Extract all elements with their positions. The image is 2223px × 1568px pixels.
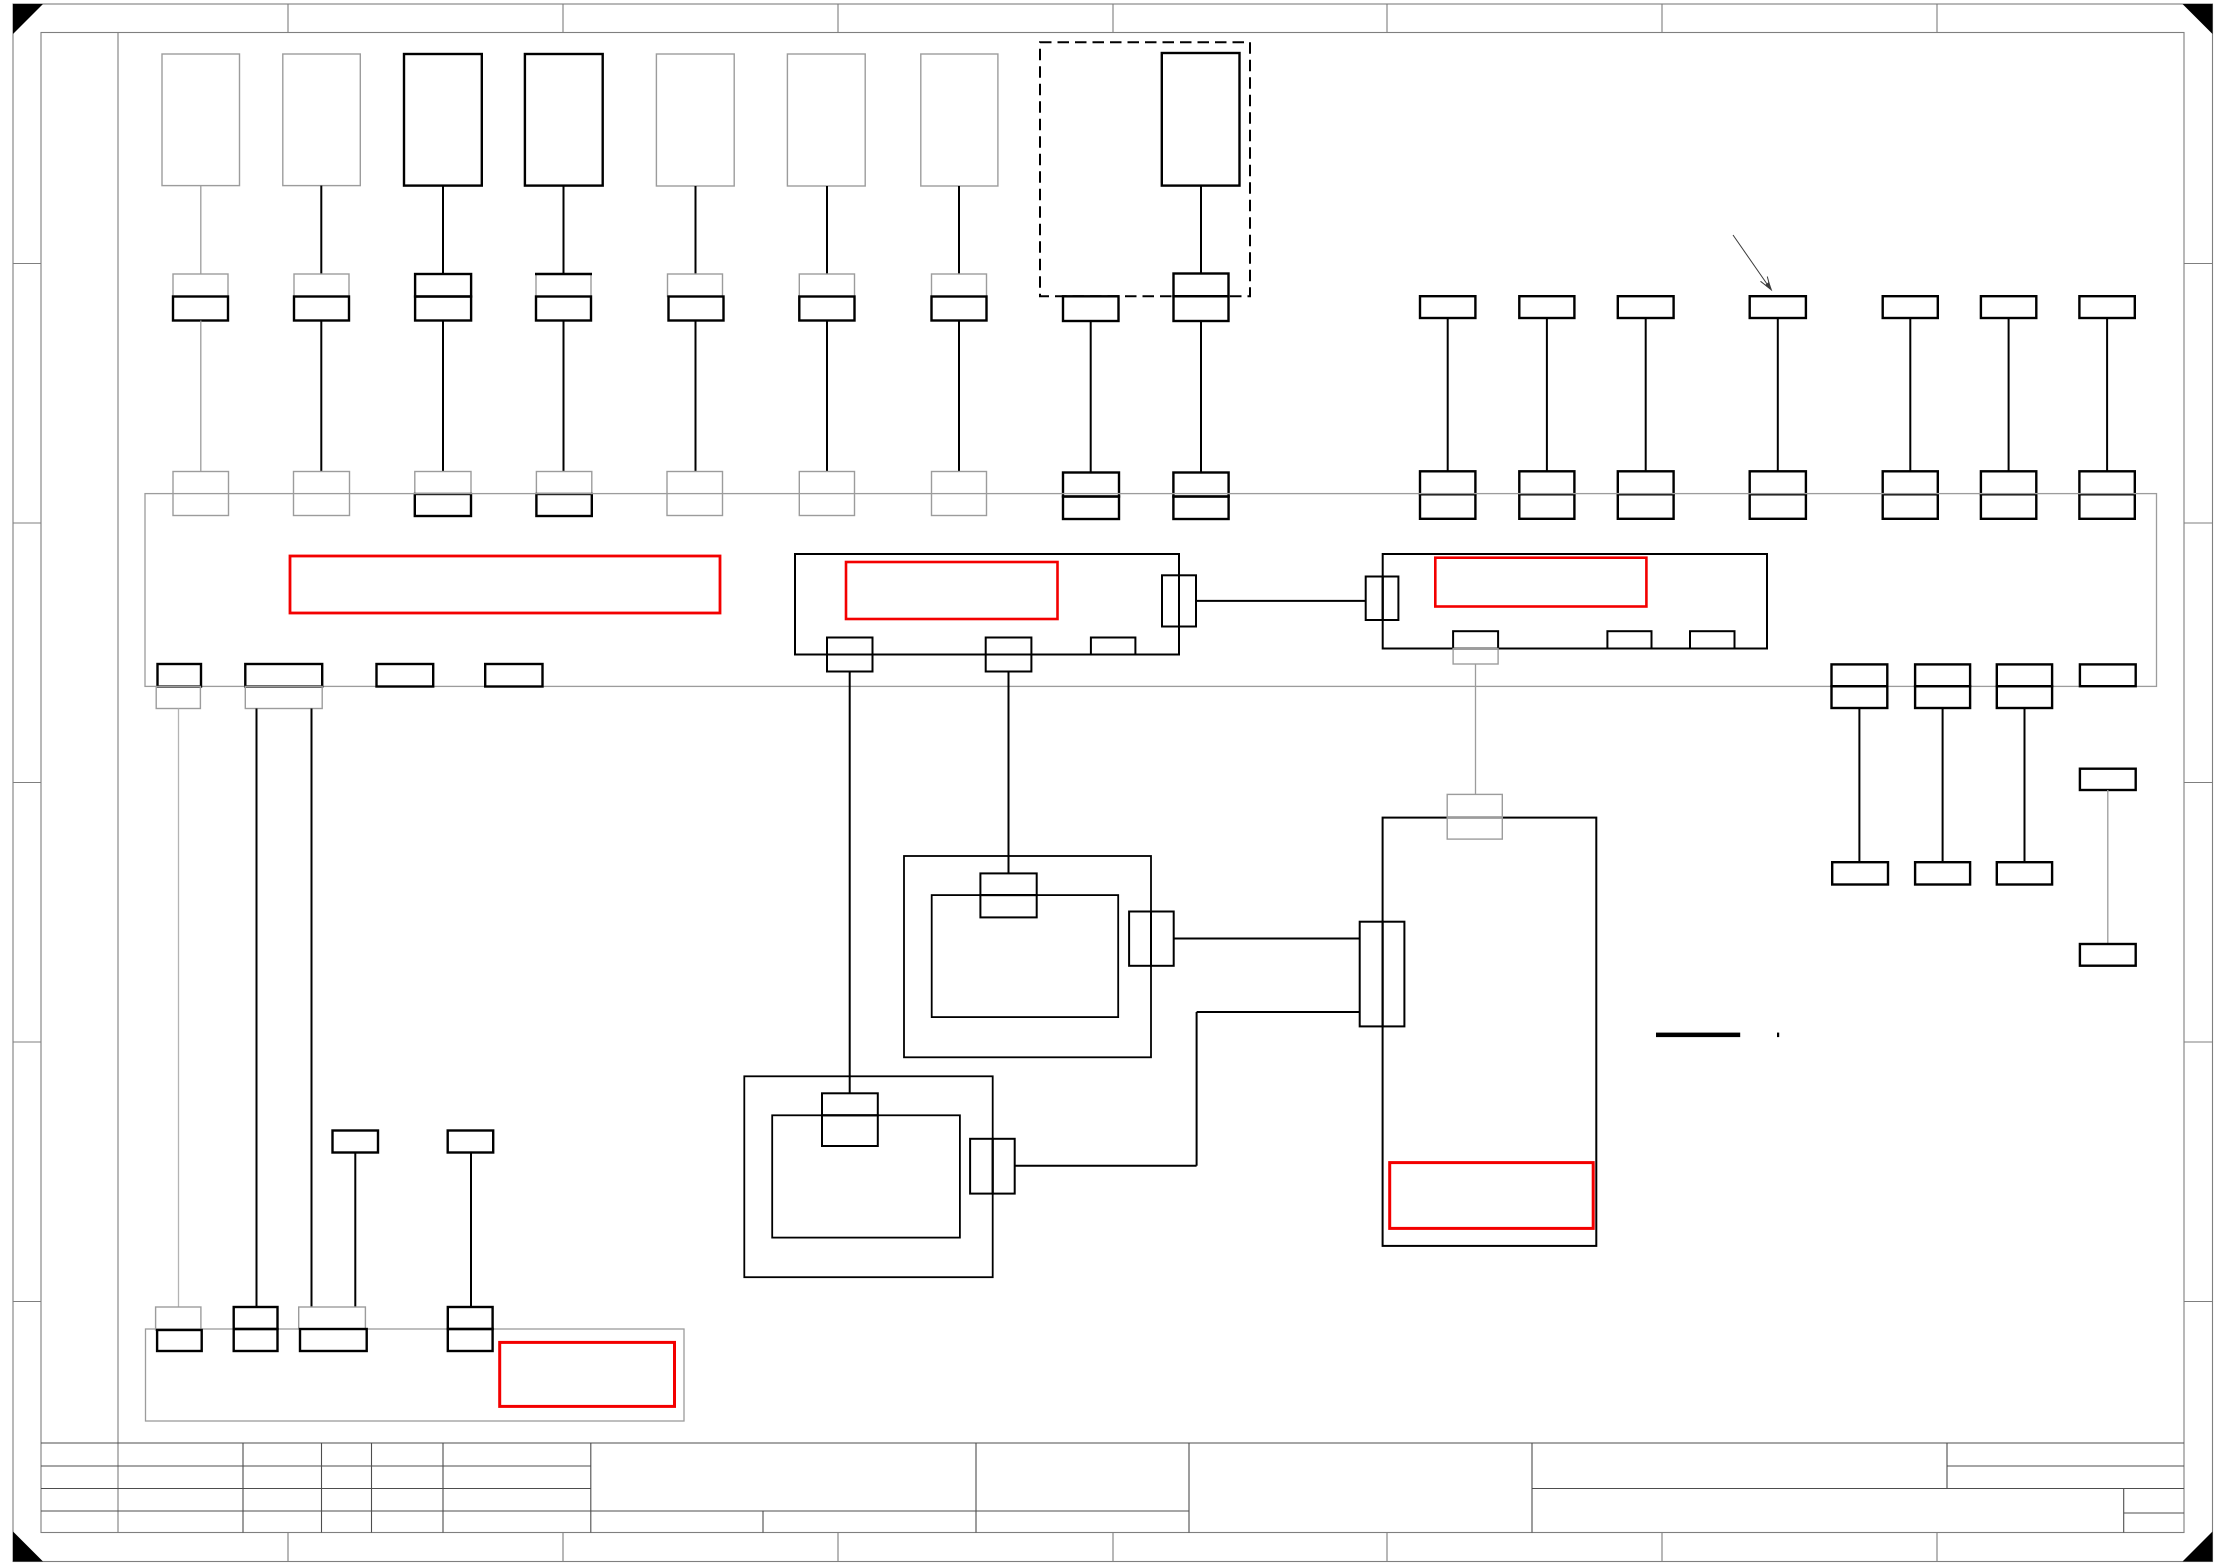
device D6: [787, 54, 865, 186]
splice S7 lower: [1997, 686, 2052, 708]
bottom zone tick: [1661, 1533, 1663, 1562]
wire M2 horizontal: [1015, 1165, 1197, 1167]
A1 pin tab P3: [1091, 638, 1136, 655]
U1 left connector outer: [1360, 922, 1383, 1027]
control unit A1: [795, 554, 1179, 655]
connector X31 upper half: [1883, 471, 1938, 494]
connector X33 upper half: [2079, 471, 2134, 494]
wire S2a down: [256, 709, 258, 1308]
bottom zone tick: [837, 1533, 839, 1562]
device D8: [1162, 53, 1240, 186]
label frame A1: [846, 562, 1058, 619]
control unit A2: [1383, 554, 1767, 649]
top zone tick: [1661, 4, 1663, 33]
connector X27 upper half: [1420, 471, 1475, 494]
connector X3 lower half: [415, 297, 471, 321]
A2 pin tab P1 sleeve: [1453, 649, 1498, 665]
connector X28 upper half: [1519, 471, 1574, 494]
connector X18 upper half: [1173, 473, 1228, 497]
A2 left connector outer: [1366, 577, 1383, 621]
wire M2 to big unit: [1197, 1011, 1360, 1013]
device D2: [283, 54, 361, 186]
connector L3 lower: [300, 1329, 367, 1351]
splice S2 sleeve: [245, 687, 322, 709]
A2 pin tab P2: [1607, 631, 1651, 648]
right zone tick: [2184, 1301, 2213, 1303]
wire D8 to X9: [1200, 186, 1202, 274]
connector X9 lower half: [1174, 296, 1229, 321]
wire X2 to X11: [320, 321, 322, 472]
module M2 outer case: [744, 1076, 992, 1277]
connector X12 lower half: [415, 494, 471, 516]
connector X15: [799, 472, 854, 516]
right zone tick: [2184, 522, 2213, 524]
connector X5 lower half: [669, 297, 724, 321]
splice S6 upper: [1915, 664, 1970, 686]
TITLEBLOCK-GROUP: [41, 1443, 2184, 1533]
wire X4 to X13: [563, 321, 565, 472]
corner trim mark top-right: [2183, 4, 2213, 34]
module M1 inner body: [932, 895, 1118, 1017]
A1 right connector outer: [1179, 575, 1196, 626]
title block column: [442, 1443, 444, 1533]
connector X30 lower half: [1750, 494, 1806, 519]
right zone tick: [2184, 263, 2213, 265]
top zone tick: [287, 4, 289, 33]
corner trim mark bottom-left: [13, 1532, 43, 1562]
corner trim mark bottom-right: [2183, 1532, 2213, 1562]
splice S1: [158, 664, 202, 687]
connector L2 lower: [234, 1329, 278, 1351]
connector L3 upper: [299, 1307, 366, 1329]
right zone tick: [2184, 1041, 2213, 1043]
connector X25: [1981, 296, 2036, 318]
wire X21 to X28: [1546, 318, 1548, 471]
A2 left connector inner: [1383, 577, 1399, 621]
connector X5 upper half: [668, 274, 723, 297]
connector X1 lower half: [173, 297, 228, 321]
wire X5 to X14: [695, 321, 697, 472]
connector X4 lower half: [536, 297, 591, 321]
title block row line: [41, 1488, 591, 1490]
jumper bar tick: [1777, 1033, 1779, 1038]
wire Xa down: [354, 1153, 356, 1308]
connector X16: [932, 472, 987, 516]
wire Xb down: [470, 1153, 472, 1308]
A1 pin tab P2 socket: [986, 655, 1032, 672]
connector X43: [2080, 769, 2136, 790]
bottom zone tick: [1112, 1533, 1114, 1562]
connector X40: [1832, 862, 1888, 884]
splice S3: [377, 664, 434, 687]
wire D3 to X3: [442, 186, 444, 274]
connector X30 upper half: [1750, 471, 1806, 494]
connector X13 upper half: [536, 472, 591, 495]
title block column short: [2123, 1489, 2125, 1533]
pointer arrow: [1733, 235, 1771, 290]
wire D1 to X1: [200, 186, 202, 274]
wire X9 to X18: [1200, 321, 1202, 473]
connector X27 lower half: [1420, 494, 1475, 519]
module M1 outer case: [904, 856, 1151, 1057]
title block row line right: [1947, 1465, 2184, 1467]
M2 right connector inner: [970, 1139, 993, 1194]
wire X26 to X33: [2106, 318, 2108, 471]
title block row line: [41, 1465, 591, 1467]
wire X25 to X32: [2008, 318, 2010, 471]
top zone tick: [1386, 4, 1388, 33]
A2 pin tab P3: [1690, 631, 1735, 648]
left zone tick: [13, 1041, 41, 1043]
connector X23: [1750, 296, 1806, 318]
connector X18 lower half: [1173, 497, 1228, 520]
TOPRIGHT-GROUP: [1420, 235, 2135, 519]
harness trunk outline: [145, 494, 2157, 687]
device D3: [404, 54, 482, 186]
bottom zone tick: [1386, 1533, 1388, 1562]
M2 top connector upper: [822, 1093, 878, 1115]
connector X8: [1063, 296, 1119, 321]
splice S2: [245, 664, 322, 687]
M1 right connector outer: [1151, 912, 1174, 966]
top zone tick: [562, 4, 564, 33]
wire D7 to X7: [958, 186, 960, 274]
connector X29 upper half: [1618, 471, 1674, 494]
splice S1 sleeve: [156, 687, 200, 709]
connector X26: [2079, 296, 2134, 318]
connector X41: [1915, 862, 1970, 884]
connector X22: [1618, 296, 1674, 318]
U1 top connector lower: [1447, 818, 1502, 840]
A1 right connector inner: [1162, 575, 1179, 626]
title block top line: [41, 1442, 2184, 1444]
title block column short: [762, 1511, 764, 1533]
right zone tick: [2184, 782, 2213, 784]
left zone tick: [13, 782, 41, 784]
title block row line right: [1532, 1488, 2184, 1490]
wire A2 P1 down: [1475, 664, 1477, 794]
module M2 inner body: [772, 1115, 960, 1237]
connector X31 lower half: [1883, 494, 1938, 519]
title block row line: [41, 1510, 1189, 1512]
top zone tick: [837, 4, 839, 33]
U1 top connector upper: [1447, 794, 1502, 817]
title block column: [1531, 1443, 1533, 1533]
title block column: [975, 1443, 977, 1533]
connector X21: [1519, 296, 1574, 318]
M1 top connector lower: [980, 895, 1036, 917]
connector X2 upper half: [294, 274, 349, 297]
connector X20: [1420, 296, 1475, 318]
label frame A2: [1435, 558, 1646, 607]
CENTER-GROUP: [744, 856, 1359, 1277]
title block column short: [1946, 1443, 1948, 1489]
connector X28 lower half: [1519, 494, 1574, 519]
top zone tick: [1112, 4, 1114, 33]
connector X13 lower half: [536, 494, 591, 516]
BOTTOMLEFT-GROUP: [146, 1131, 685, 1422]
A2 pin tab P1: [1453, 631, 1498, 648]
wire X22 to X29: [1645, 318, 1647, 471]
connector X11: [294, 472, 350, 516]
U1 left connector inner: [1383, 922, 1405, 1027]
bottom zone tick: [562, 1533, 564, 1562]
connector X17 upper half: [1063, 473, 1119, 497]
wire X1 to X10: [200, 321, 202, 472]
left zone tick: [13, 1301, 41, 1303]
wire X8 to X17: [1090, 321, 1092, 473]
connector X17 lower half: [1063, 497, 1119, 520]
splice S6 lower: [1915, 686, 1970, 708]
connector L2 upper: [234, 1307, 278, 1329]
connector X44: [2080, 944, 2136, 966]
margin divider: [117, 33, 119, 1533]
connector L1 upper: [156, 1307, 201, 1330]
title block row line small right: [2124, 1512, 2184, 1514]
connector X6 lower half: [799, 297, 854, 321]
splice S8: [2080, 664, 2136, 686]
connector X7 upper half: [932, 274, 987, 297]
wire S7 down: [2024, 708, 2026, 862]
connector X24: [1883, 296, 1938, 318]
connector X4 upper half: [536, 274, 591, 297]
wire D2 to X2: [320, 186, 322, 274]
lower harness outline: [146, 1329, 685, 1421]
connector X3 upper half: [415, 274, 471, 297]
connector Xb: [448, 1131, 494, 1153]
connector L4 upper: [448, 1307, 493, 1329]
bottom zone tick: [287, 1533, 289, 1562]
connector X14: [667, 472, 723, 516]
wire X43 down: [2107, 790, 2109, 944]
title block column: [242, 1443, 244, 1533]
wire D5 to X5: [695, 186, 697, 274]
device D4: [525, 54, 603, 186]
wire X6 to X15: [826, 321, 828, 472]
jumper bar: [1656, 1033, 1740, 1038]
connector X2 lower half: [294, 297, 349, 321]
corner trim mark top-left: [13, 4, 43, 34]
A1 pin tab P1: [827, 638, 873, 655]
M1 right connector inner: [1129, 912, 1151, 966]
label frame U1: [1390, 1163, 1594, 1229]
optional equipment dashed boundary: [1040, 42, 1250, 296]
TOPROW-GROUP: [162, 42, 1250, 519]
wire S5 down: [1858, 708, 1860, 862]
wire A1 P2 down: [1008, 672, 1010, 874]
wire A1 to A2: [1196, 600, 1366, 602]
wire X7 to X16: [958, 321, 960, 472]
splice S4: [485, 664, 542, 687]
device D5: [656, 54, 734, 186]
title block column: [590, 1443, 592, 1533]
connector X6 upper half: [799, 274, 854, 297]
wire S2b down: [311, 709, 313, 1308]
label frame harness trunk: [290, 556, 720, 613]
connector X4 top edge: [535, 273, 592, 275]
wire D4 to X4: [563, 186, 565, 274]
connector X7 lower half: [932, 297, 987, 321]
wire D6 to X6: [826, 186, 828, 274]
wire X23 to X30: [1777, 318, 1779, 471]
BAND-GROUP: [145, 494, 2157, 1307]
connector X10: [173, 472, 229, 516]
title block column: [371, 1443, 373, 1533]
bottom zone tick: [1936, 1533, 1938, 1562]
connector X33 lower half: [2079, 494, 2134, 519]
A1 pin tab P1 socket: [827, 655, 873, 672]
connector X32 upper half: [1981, 471, 2036, 494]
wire A1 P1 down: [849, 672, 851, 1094]
BIGUNIT-GROUP: [1360, 794, 1780, 1245]
M2 top connector lower: [822, 1115, 878, 1146]
M1 top connector upper: [980, 873, 1036, 895]
A1 pin tab P2: [986, 638, 1032, 655]
RIGHTSIDE-GROUP: [1832, 664, 2136, 965]
wire M2 vertical riser: [1196, 1012, 1198, 1166]
device D7: [921, 54, 998, 186]
splice S5 upper: [1832, 664, 1888, 686]
wire X20 to X27: [1447, 318, 1449, 471]
wire X3 to X12: [442, 321, 444, 472]
splice S5 lower: [1832, 686, 1888, 708]
splice S7 upper: [1997, 664, 2052, 686]
M2 right connector outer: [993, 1139, 1015, 1194]
connector X42: [1997, 862, 2052, 884]
connector X12 upper half: [415, 472, 471, 495]
title block column: [321, 1443, 323, 1533]
label frame lower harness: [500, 1342, 675, 1406]
connector X32 lower half: [1981, 494, 2036, 519]
wire X24 to X31: [1909, 318, 1911, 471]
wire S1 down: [178, 709, 180, 1308]
main unit U1: [1383, 818, 1597, 1246]
wire M1 to big unit: [1174, 938, 1360, 940]
connector L1 lower: [157, 1330, 202, 1351]
wire S6 down: [1942, 708, 1944, 862]
connector Xa: [333, 1131, 379, 1153]
left zone tick: [13, 263, 41, 265]
connector X1 upper half: [173, 274, 228, 297]
device D1: [162, 54, 240, 186]
connector X9 upper half: [1174, 274, 1229, 297]
connector X29 lower half: [1618, 494, 1674, 519]
connector L4 lower: [448, 1329, 493, 1351]
top zone tick: [1936, 4, 1938, 33]
left zone tick: [13, 522, 41, 524]
title block column: [1188, 1443, 1190, 1533]
